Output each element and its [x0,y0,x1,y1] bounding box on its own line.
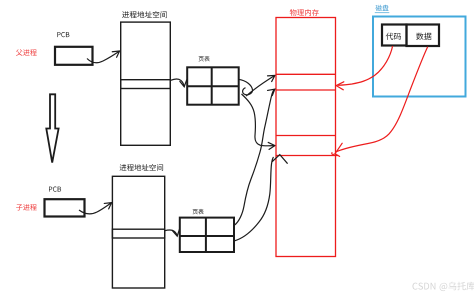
red arrowhead into frame 2 [335,143,342,156]
fork arrow (hollow down arrow) [46,94,58,162]
physical memory rectangle [276,18,336,257]
physical memory frame 2 top line [276,135,336,137]
wire: data box to physical memory frame 2 (red) [337,47,428,152]
black wide-open up arrowhead into frame 2 [272,155,287,164]
child address space rectangle [112,176,164,288]
child address space shared band [112,229,164,238]
wire: parent page table to physical memory frame 1 (loop arrow) [239,75,275,96]
watermark: CSDN @乌托邦 [413,282,474,291]
label: page table (页表) parent [199,56,210,61]
label: physical memory (物理内存) [290,9,319,16]
physical memory frame 1 bottom line [276,89,336,91]
wire: arrow parent PCB to address space [87,51,120,63]
wire: code box to physical memory frame 1 (red) [338,46,393,85]
physical memory frame 2 bottom line [276,155,339,157]
wire: child page table to physical memory frame 2 (up arrow) [234,157,274,241]
parent page table 2x2 grid [187,67,239,104]
parent address space rectangle [121,22,171,145]
physical memory frame 1 top line [276,73,336,75]
child page table 2x2 grid [180,218,234,252]
label: page table (页表) child [193,209,204,214]
label: PCB (child) [49,187,61,192]
label: PCB (parent) [57,32,69,37]
parent PCB box [55,47,93,65]
child PCB box [45,199,85,216]
wire: arrow child band to page table [165,230,177,236]
disk box [373,17,466,97]
wire: arrow parent band to page table [171,79,185,87]
label: disk (磁盘) [376,5,389,11]
label: process address space (进程地址空间) child [120,164,164,171]
code box (代码) [382,25,407,46]
red arrowhead into frame 1 [336,82,344,90]
data box (数据) [407,25,440,47]
disk label underline [375,12,390,14]
label: process address space (进程地址空间) parent [122,11,167,18]
red arrowhead overshoot curl [332,152,335,154]
wire: child page table to physical memory frame 1 (long up arrow) [234,89,275,225]
parent address space shared band [121,80,171,89]
wire: parent page table to physical memory frame 2 (long down arrow) [242,94,275,146]
label: child process (子进程) [16,204,37,211]
wire: arrow child PCB to address space [79,203,112,214]
label: parent process (父进程) [16,49,37,56]
